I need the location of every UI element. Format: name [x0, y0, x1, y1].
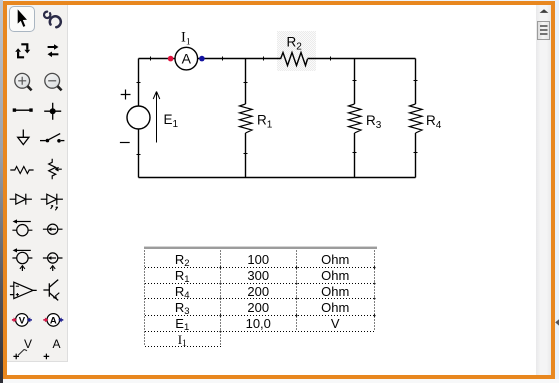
scrollbar track [536, 5, 551, 375]
value row R3 [144, 300, 375, 316]
svg-text:R4: R4 [426, 113, 442, 131]
wire top-right segment [308, 58, 416, 60]
value row R1 [144, 268, 375, 284]
toolbar icon: current source [43, 224, 63, 234]
wire R3 branch upper [354, 59, 356, 105]
toolbar icon: switch [40, 134, 64, 143]
toolbar icon: resistor horizontal [10, 167, 33, 174]
value row I1 [144, 332, 375, 348]
voltage source E1 body [127, 106, 150, 129]
pin tick R1 bottom [244, 153, 248, 155]
svg-text:I1: I1 [181, 30, 191, 48]
pin tick R3 bottom [353, 152, 357, 154]
toolbar icon: rotate [15, 44, 30, 57]
outer desktop strips [0, 0, 559, 2]
toolbar icon: photodiode [41, 194, 63, 211]
pin tick top wire left of ammeter [150, 57, 152, 61]
pin tick R4 top [414, 80, 418, 82]
pin tick E1 bottom [137, 154, 141, 156]
wire R4 branch upper [415, 59, 417, 105]
toolbar icon: A probe [44, 337, 61, 359]
value row E1 [144, 316, 375, 332]
svg-text:A: A [182, 51, 192, 67]
wire R1 branch upper [245, 59, 247, 105]
toolbar icon: node [44, 103, 61, 120]
E1 plus sign [121, 90, 131, 100]
wire left branch [138, 59, 140, 178]
pin tick E1 top [137, 82, 141, 84]
toolbar icon: zoom in [15, 73, 32, 90]
table grid node diamonds [219, 266, 376, 333]
svg-text:A: A [53, 337, 61, 351]
toolbar icon: controlled current source [43, 253, 63, 271]
ammeter I1 red terminal [168, 56, 174, 62]
pin tick R4 bottom [414, 152, 418, 154]
toolbar icon: selection arrow [18, 9, 27, 27]
value row R4 [144, 284, 375, 300]
scrollbar thumb grip [540, 26, 548, 34]
resistor R4 [410, 104, 423, 133]
pin tick R1 top [244, 82, 248, 84]
wire R4 branch lower [415, 133, 417, 178]
resistor R1 [240, 104, 253, 133]
toolbar icon: ground [18, 130, 29, 145]
svg-text:V: V [24, 337, 32, 351]
toolbar panel [7, 5, 68, 362]
resistor R2 [281, 53, 308, 66]
selected tool button [9, 6, 35, 32]
stray widget at right edge [555, 319, 559, 326]
wire bottom [139, 177, 416, 179]
scrollbar thumb [537, 21, 550, 40]
toolbar icon: source with arrow above [12, 219, 32, 236]
toolbar icon: wire [13, 108, 33, 111]
value row R2 [144, 252, 375, 348]
toolbar icon: swap arrows [48, 44, 59, 57]
toolbar icon: op-amp [10, 282, 37, 298]
toolbar icon: controlled source with arrow above [12, 248, 32, 271]
toolbar icon: voltmeter [12, 314, 32, 327]
pin tick R3 top [353, 80, 357, 82]
toolbar icon: V probe [13, 337, 32, 359]
pin tick right of R2 [330, 57, 332, 61]
svg-text:A: A [50, 315, 57, 326]
toolbar icon: diode [10, 194, 32, 205]
svg-text:R3: R3 [366, 113, 382, 131]
toolbar icon: transistor [43, 280, 59, 301]
toolbar icon: ammeter [43, 314, 63, 327]
selection hatch around R2 [277, 31, 316, 71]
wire R3 branch lower [354, 133, 356, 178]
ammeter I1 body [175, 47, 198, 70]
table grid dotted lines [145, 251, 376, 347]
E1 direction arrow [153, 92, 160, 143]
toolbar icon: zoom out [45, 73, 62, 90]
wire R1 branch lower [245, 133, 247, 178]
scrollbar up arrow [540, 9, 549, 13]
toolbar icon: wrench [44, 12, 61, 28]
ammeter I1 blue terminal [199, 56, 205, 62]
pin tick top wire right of ammeter [222, 57, 224, 61]
svg-text:E1: E1 [164, 112, 179, 130]
table top bar [144, 246, 377, 249]
pin tick left of R2 [263, 57, 265, 61]
E1 minus sign [120, 142, 130, 144]
svg-text:V: V [19, 315, 26, 326]
svg-text:R1: R1 [257, 113, 273, 131]
resistor R3 [349, 104, 362, 133]
wire top-left segment [139, 58, 281, 60]
toolbar icon: resistor vertical variable [49, 159, 62, 180]
